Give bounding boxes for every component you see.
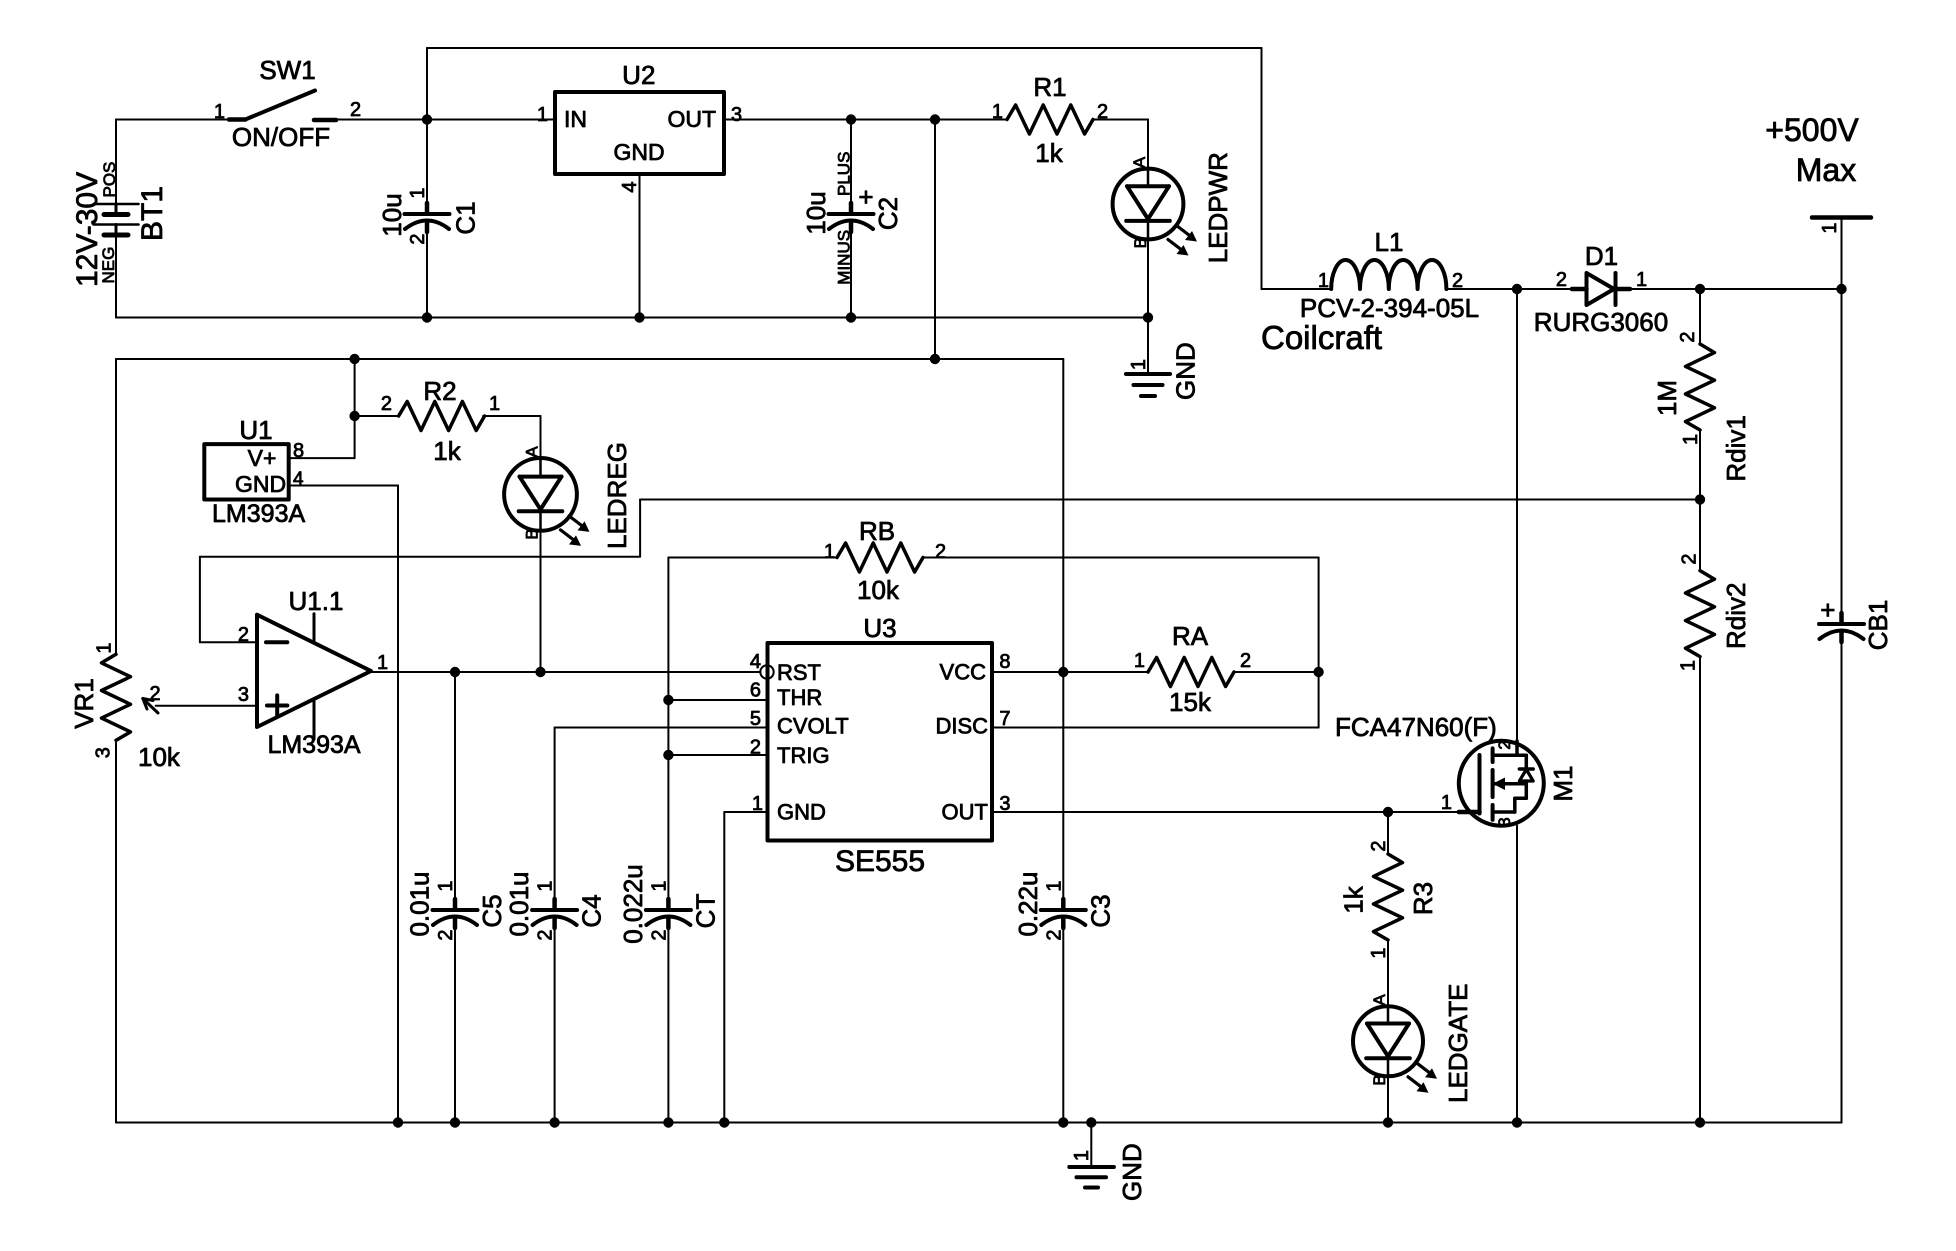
- node junction VCC/C3/RA: [1058, 667, 1068, 677]
- wire U3 GND pin1 to bottom rail: [724, 812, 767, 1123]
- svg-text:3: 3: [238, 684, 249, 706]
- svg-text:1: 1: [824, 541, 835, 563]
- svg-text:1: 1: [648, 880, 670, 891]
- wire R2 pin2 branch: [355, 359, 399, 458]
- svg-text:5: 5: [750, 708, 761, 730]
- transistor M1 FCA47N60(F) MOSFET: [1335, 712, 1578, 827]
- svg-text:2: 2: [1240, 650, 1251, 672]
- node junction Rdiv1/Rdiv2 divider tap: [1695, 494, 1705, 504]
- svg-text:10k: 10k: [138, 742, 181, 772]
- svg-text:CT: CT: [690, 894, 720, 929]
- svg-text:POS: POS: [100, 162, 119, 198]
- wire R2 pin1 to LEDREG anode: [483, 416, 541, 458]
- svg-text:0.01u: 0.01u: [504, 871, 534, 936]
- svg-text:2: 2: [149, 683, 160, 705]
- wire U2 OUT to R1: [724, 119, 1007, 121]
- svg-text:2: 2: [935, 541, 946, 563]
- diode D1 RURG3060: [1534, 241, 1668, 337]
- wire C2 leads: [850, 120, 852, 318]
- svg-text:R2: R2: [423, 376, 456, 406]
- svg-text:2: 2: [535, 929, 557, 940]
- node junction L1/D1/M1-drain: [1512, 284, 1522, 294]
- node junction C2 bottom: [846, 312, 856, 322]
- node junction LEDREG cathode tap: [535, 667, 545, 677]
- wire C3 branch: [1062, 672, 1064, 1123]
- svg-text:10u: 10u: [801, 191, 831, 234]
- svg-text:+500V: +500V: [1765, 112, 1859, 148]
- timer U3 SE555: [750, 613, 1011, 878]
- LED LEDREG: [504, 442, 632, 549]
- svg-text:2: 2: [750, 737, 761, 759]
- svg-text:1k: 1k: [433, 436, 461, 466]
- ground GND (bottom): [1069, 1123, 1147, 1202]
- svg-text:2: 2: [435, 929, 457, 940]
- node junction R2 pin2 / U1 V+: [349, 411, 359, 421]
- node junction bottom rail Rdiv2: [1695, 1117, 1705, 1127]
- svg-text:U1: U1: [239, 415, 272, 445]
- svg-text:1M: 1M: [1652, 380, 1682, 416]
- svg-text:L1: L1: [1375, 227, 1404, 257]
- wire VCC distribution rail (y=359): [116, 120, 1063, 673]
- wire VR1 wiper to U1.1 non-inverting input: [156, 705, 257, 707]
- wire R1 pin2 to LEDPWR anode: [1093, 120, 1149, 169]
- wire R3 top lead: [1387, 812, 1389, 854]
- svg-text:Rdiv2: Rdiv2: [1721, 583, 1751, 649]
- svg-text:4: 4: [619, 181, 641, 192]
- wire comparator output to RST: [371, 671, 761, 673]
- svg-text:1: 1: [1128, 359, 1150, 370]
- svg-text:2: 2: [238, 624, 249, 646]
- wire C5 branch: [454, 672, 456, 1123]
- wire RA pin2 to DISC node: [1234, 671, 1319, 673]
- wire M1 drain lead: [1516, 289, 1518, 741]
- svg-text:7: 7: [999, 708, 1010, 730]
- svg-text:LEDGATE: LEDGATE: [1443, 984, 1473, 1103]
- svg-text:GND: GND: [1171, 342, 1201, 400]
- svg-text:Rdiv1: Rdiv1: [1721, 415, 1751, 481]
- svg-text:MINUS: MINUS: [835, 230, 854, 285]
- svg-text:CVOLT: CVOLT: [777, 714, 849, 739]
- svg-text:PLUS: PLUS: [835, 152, 854, 196]
- svg-text:A: A: [523, 446, 542, 458]
- svg-text:LEDPWR: LEDPWR: [1203, 152, 1233, 263]
- wire LEDGATE cathode to bottom rail: [1387, 1077, 1389, 1123]
- node junction bottom rail LEDGATE: [1383, 1117, 1393, 1127]
- node junction +500V terminal: [1836, 284, 1846, 294]
- wire R3 to LEDGATE anode: [1387, 940, 1389, 1006]
- node junction C5 tap: [450, 667, 460, 677]
- resistor RA 15k: [1134, 621, 1251, 717]
- wire CVOLT pin5 to C4: [555, 728, 768, 1123]
- capacitor C2 10u: [801, 152, 903, 285]
- resistor R2 1k: [381, 376, 500, 466]
- svg-text:SE555: SE555: [835, 845, 925, 878]
- svg-text:1: 1: [1071, 1150, 1093, 1161]
- svg-text:3: 3: [93, 747, 115, 758]
- node junction R3 tap: [1383, 807, 1393, 817]
- svg-text:M1: M1: [1548, 766, 1578, 802]
- node junction RA/RB/DISC: [1313, 667, 1323, 677]
- svg-text:LM393A: LM393A: [267, 731, 360, 759]
- wire VR1 top lead: [115, 359, 117, 654]
- svg-text:1: 1: [992, 101, 1003, 123]
- svg-text:NEG: NEG: [99, 247, 118, 284]
- svg-text:U3: U3: [863, 613, 896, 643]
- svg-text:Max: Max: [1796, 152, 1856, 188]
- wire +500V terminal lead: [1812, 218, 1871, 614]
- svg-text:8: 8: [293, 440, 304, 462]
- svg-text:CB1: CB1: [1863, 600, 1893, 651]
- svg-text:OUT: OUT: [667, 106, 716, 132]
- svg-text:1: 1: [535, 880, 557, 891]
- wire RB pin2 down to DISC: [923, 558, 1319, 728]
- svg-text:2: 2: [381, 393, 392, 415]
- capacitor CT 0.022u: [618, 864, 721, 944]
- capacitor C3 0.22u: [1013, 871, 1116, 940]
- svg-text:15k: 15k: [1169, 687, 1212, 717]
- svg-text:1: 1: [537, 104, 548, 126]
- wire THR pin6: [668, 699, 767, 701]
- potentiometer VR1 10k: [69, 642, 181, 772]
- node junction C1/top-rail: [422, 114, 432, 124]
- svg-text:B: B: [1370, 1074, 1389, 1085]
- wire Rdiv1 leads: [1699, 289, 1701, 500]
- svg-text:2: 2: [1043, 929, 1065, 940]
- node junction LEDPWR cathode / GND: [1143, 312, 1153, 322]
- svg-text:U2: U2: [622, 60, 655, 90]
- svg-text:0.22u: 0.22u: [1013, 871, 1043, 936]
- wire U1 pin8 V+: [289, 457, 355, 459]
- wire D1 cathode to +500V rail: [1630, 288, 1842, 290]
- svg-text:1: 1: [1636, 269, 1647, 291]
- node junction C2 top: [846, 114, 856, 124]
- resistor Rdiv2: [1678, 553, 1752, 671]
- battery BT1 12V-30V: [71, 120, 169, 318]
- wire top rail VCC-in (y=119.5) battery to SW1: [116, 119, 229, 121]
- svg-text:2: 2: [1495, 740, 1514, 749]
- svg-text:1: 1: [1819, 222, 1841, 233]
- node junction THR tap: [663, 695, 673, 705]
- capacitor C5 0.01u: [405, 871, 508, 940]
- capacitor C1 10u: [377, 187, 481, 244]
- svg-text:2: 2: [350, 99, 361, 121]
- resistor R3 1k: [1339, 840, 1439, 958]
- svg-text:IN: IN: [564, 106, 587, 132]
- svg-text:R1: R1: [1033, 72, 1066, 102]
- svg-text:A: A: [1130, 156, 1149, 168]
- svg-text:ON/OFF: ON/OFF: [232, 122, 330, 152]
- svg-text:U1.1: U1.1: [289, 586, 344, 616]
- svg-text:3: 3: [999, 793, 1010, 815]
- svg-text:+: +: [858, 182, 873, 212]
- svg-text:GND: GND: [235, 471, 286, 497]
- resistor RB 10k: [824, 516, 946, 605]
- resistor R1 1k: [992, 72, 1108, 168]
- wire bottom ground rail (y=1122.5): [116, 1122, 1842, 1124]
- inductor L1 PCV-2-394-05L Coilcraft: [1261, 227, 1479, 356]
- svg-text:0.01u: 0.01u: [405, 871, 435, 936]
- node junction bottom rail U3-gnd: [719, 1117, 729, 1127]
- svg-text:4: 4: [293, 469, 304, 490]
- wire sense line to U1.1 inverting input: [200, 557, 640, 643]
- svg-text:GND: GND: [1117, 1143, 1147, 1201]
- regulator U2: [537, 60, 742, 193]
- capacitor C4 0.01u: [504, 871, 607, 940]
- node junction C1 bottom: [422, 312, 432, 322]
- svg-text:2: 2: [1368, 840, 1390, 851]
- svg-text:1: 1: [752, 793, 763, 815]
- svg-text:OUT: OUT: [942, 800, 988, 825]
- svg-text:3: 3: [731, 104, 742, 126]
- svg-text:1: 1: [407, 187, 429, 198]
- svg-text:+: +: [1820, 595, 1835, 625]
- node junction feed to lower section: [930, 114, 940, 124]
- svg-text:C4: C4: [577, 894, 607, 927]
- wire U3 VCC pin8 to RA pin1: [992, 671, 1148, 673]
- wire upper loop: C1 junction up / across / down to L1: [427, 48, 1262, 289]
- svg-text:1: 1: [1680, 434, 1702, 445]
- svg-text:1k: 1k: [1035, 138, 1063, 168]
- LED LEDGATE: [1353, 984, 1473, 1103]
- svg-text:1: 1: [1134, 650, 1145, 672]
- svg-text:2: 2: [1677, 331, 1699, 342]
- svg-text:8: 8: [999, 651, 1010, 673]
- node junction bottom rail U1-gnd: [393, 1117, 403, 1127]
- wire RB pin1 to CT/THR/TRIG node: [668, 558, 837, 1123]
- svg-text:RST: RST: [777, 660, 821, 685]
- wire CB1 bottom lead to bottom rail: [1841, 642, 1843, 1123]
- svg-text:10u: 10u: [377, 193, 407, 236]
- wire L1 pin1 lead: [1262, 288, 1332, 290]
- node junction Rdiv1 top: [1695, 284, 1705, 294]
- svg-text:2: 2: [407, 233, 429, 244]
- svg-text:2: 2: [1679, 553, 1701, 564]
- svg-text:4: 4: [750, 651, 761, 673]
- wire C1 leads: [426, 120, 428, 318]
- wire Rdiv2 leads: [1699, 500, 1701, 1123]
- switch SW1 ON/OFF: [214, 55, 361, 152]
- svg-text:1: 1: [1368, 947, 1390, 958]
- svg-text:THR: THR: [777, 685, 822, 710]
- svg-text:1: 1: [489, 393, 500, 415]
- wire LEDPWR cathode lead: [1147, 239, 1149, 317]
- LED LEDPWR: [1113, 152, 1233, 263]
- wire TRIG pin2: [668, 754, 767, 756]
- svg-text:SW1: SW1: [259, 55, 315, 85]
- comparator U1 LM393A power box: [204, 415, 305, 528]
- node junction bottom rail C4: [549, 1117, 559, 1127]
- node junction bottom rail M1-source: [1512, 1117, 1522, 1127]
- svg-text:Coilcraft: Coilcraft: [1261, 319, 1382, 356]
- svg-text:1: 1: [435, 880, 457, 891]
- svg-text:1k: 1k: [1339, 885, 1369, 913]
- wire LEDREG cathode down to comparator output: [540, 531, 542, 672]
- op-amp U1.1 LM393A: [238, 586, 388, 759]
- wire U1 pin4 GND down to bottom rail: [289, 486, 398, 1123]
- svg-text:1: 1: [1043, 880, 1065, 891]
- svg-text:2: 2: [648, 929, 670, 940]
- svg-text:VCC: VCC: [940, 660, 987, 685]
- node junction VCC feed: [930, 354, 940, 364]
- svg-text:RURG3060: RURG3060: [1534, 307, 1668, 337]
- svg-text:C2: C2: [873, 197, 903, 230]
- svg-text:RA: RA: [1172, 621, 1209, 651]
- svg-text:1: 1: [1318, 270, 1329, 292]
- svg-text:BT1: BT1: [136, 186, 169, 241]
- wire ground rail (y=317.5): [116, 317, 1148, 319]
- svg-text:TRIG: TRIG: [777, 743, 830, 768]
- svg-text:1: 1: [1678, 660, 1700, 671]
- svg-text:R3: R3: [1408, 882, 1438, 915]
- wire VR1 bottom lead: [115, 743, 117, 1123]
- svg-text:LEDREG: LEDREG: [602, 442, 632, 549]
- svg-text:RB: RB: [859, 516, 895, 546]
- svg-text:1: 1: [94, 642, 116, 653]
- capacitor CB1: [1819, 595, 1893, 650]
- svg-text:3: 3: [1495, 817, 1514, 826]
- wire U2 GND pin4 lead: [639, 174, 641, 318]
- wire SW1 to U2 IN with junction at C1: [336, 119, 555, 121]
- svg-text:C3: C3: [1085, 894, 1115, 927]
- svg-text:GND: GND: [777, 800, 826, 825]
- svg-text:C5: C5: [477, 894, 507, 927]
- node junction bottom rail gnd-stub: [1086, 1117, 1096, 1127]
- svg-text:0.022u: 0.022u: [618, 864, 648, 944]
- svg-text:2: 2: [1097, 101, 1108, 123]
- wire U3 OUT pin3 to M1 gate and R3: [992, 811, 1459, 813]
- svg-text:LM393A: LM393A: [212, 500, 305, 528]
- node junction bottom rail C5: [450, 1117, 460, 1127]
- wire DISC pin7: [992, 727, 1319, 729]
- node junction R2/U1 supply tap: [349, 354, 359, 364]
- wire L1 pin2 to D1 anode: [1447, 288, 1573, 290]
- ground GND (top): [1126, 318, 1201, 401]
- node junction bottom rail CT: [663, 1117, 673, 1127]
- node junction U2 GND bottom: [634, 312, 644, 322]
- svg-text:B: B: [523, 528, 542, 539]
- svg-text:C1: C1: [451, 201, 481, 234]
- svg-text:GND: GND: [613, 139, 664, 165]
- svg-text:2: 2: [1556, 269, 1567, 291]
- svg-text:1: 1: [214, 101, 225, 123]
- svg-text:D1: D1: [1585, 241, 1618, 271]
- wire divider sense rail (y=499.5): [640, 500, 1700, 557]
- svg-text:DISC: DISC: [935, 714, 988, 739]
- node junction bottom rail C3: [1058, 1117, 1068, 1127]
- svg-text:1: 1: [1441, 792, 1452, 814]
- resistor Rdiv1 1M: [1652, 331, 1751, 481]
- svg-text:2: 2: [1452, 270, 1463, 292]
- svg-text:1: 1: [377, 652, 388, 674]
- svg-text:VR1: VR1: [69, 678, 99, 729]
- svg-text:FCA47N60(F): FCA47N60(F): [1335, 712, 1497, 742]
- svg-text:V+: V+: [248, 445, 277, 471]
- wire M1 source lead to bottom rail: [1516, 826, 1518, 1123]
- svg-text:10k: 10k: [857, 575, 900, 605]
- node junction TRIG tap: [663, 750, 673, 760]
- svg-text:B: B: [1131, 237, 1150, 248]
- svg-text:A: A: [1370, 994, 1389, 1006]
- svg-text:6: 6: [750, 680, 761, 702]
- power +500V Max terminal: [1765, 112, 1859, 234]
